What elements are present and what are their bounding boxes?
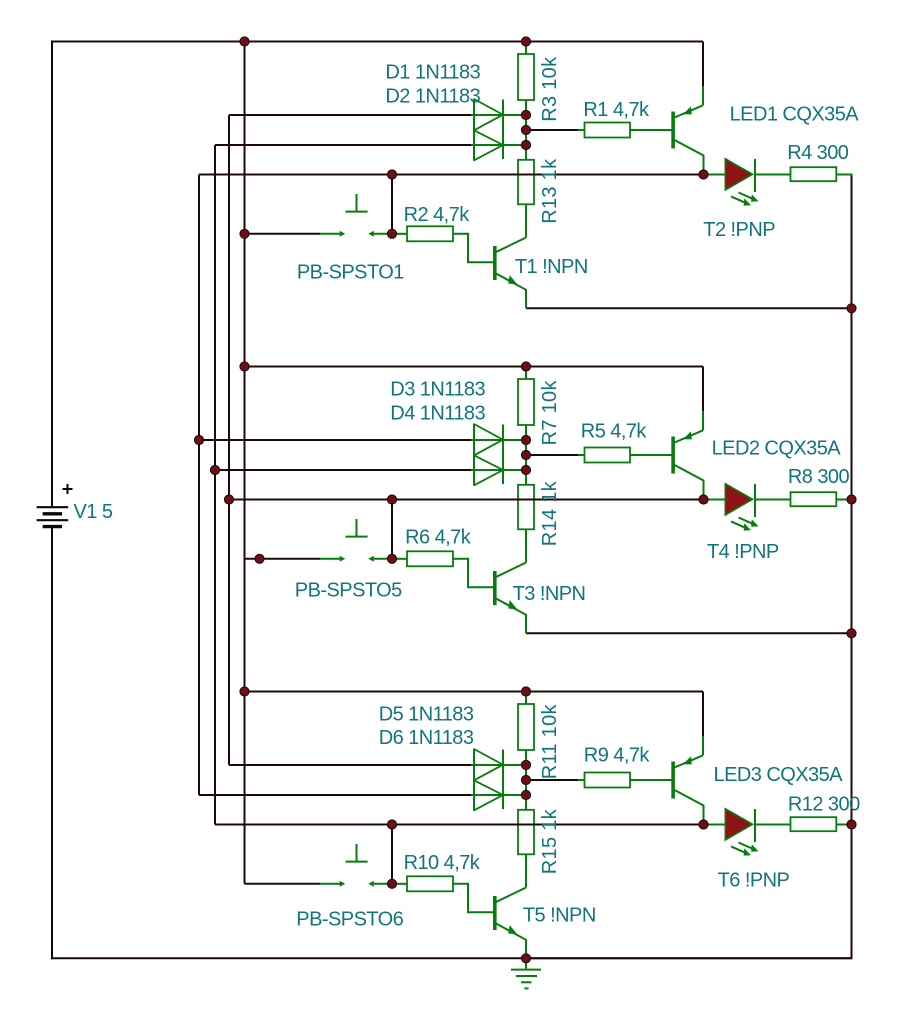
wire: left battery rail x=52 (lower) xyxy=(51,527,53,960)
wire: +V rail block 3 y=691.5 xyxy=(245,691,704,693)
LED LED3 anode stub xyxy=(704,824,726,826)
wire: diode junction column xyxy=(525,425,527,485)
svg-text:T5 !NPN: T5 !NPN xyxy=(523,905,596,927)
svg-text:LED3 CQX35A: LED3 CQX35A xyxy=(714,764,844,786)
ground bar 1 xyxy=(511,969,541,971)
node diode junction 2 xyxy=(521,790,530,799)
diode D6 1N1183 (bottom) xyxy=(474,780,503,810)
svg-text:T4 !PNP: T4 !PNP xyxy=(707,541,779,563)
ground bar 3 xyxy=(521,981,532,983)
switch PB-SPSTO1 plunger xyxy=(346,194,368,212)
svg-text:PB-SPSTO1: PB-SPSTO1 xyxy=(297,262,404,284)
svg-text:R15 1k: R15 1k xyxy=(539,808,561,874)
transistor T2 collector diagonal xyxy=(675,105,704,117)
resistor R2 body xyxy=(407,226,453,241)
svg-text:T3 !NPN: T3 !NPN xyxy=(513,583,586,605)
node bus x215 / diode in2 tap xyxy=(210,465,219,474)
LED LED2 triangle xyxy=(725,484,752,515)
wire: R4 to right rail xyxy=(836,174,852,176)
battery V1 plate short thick bottom xyxy=(43,525,62,528)
wire: diode input 1 (dark) xyxy=(229,114,471,116)
switch PB-SPSTO5 contact arrow left xyxy=(320,558,341,560)
node emitter return / right rail xyxy=(847,629,856,638)
wire: switch to R6 xyxy=(392,558,407,560)
node diode junction 1 xyxy=(521,435,530,444)
svg-text:R8 300: R8 300 xyxy=(788,466,850,488)
wire: switch riser x=392 (dark) xyxy=(391,175,393,234)
svg-text:D3 1N1183: D3 1N1183 xyxy=(390,379,485,401)
switch PB-SPSTO1 contact arrow left xyxy=(320,233,341,235)
LED LED3 triangle xyxy=(725,809,752,840)
resistor R6 body xyxy=(407,551,453,566)
wire: switch riser x=392 (dark) xyxy=(391,500,393,559)
resistor R3 vertical body xyxy=(518,54,534,100)
diode cathode bar (shared right) xyxy=(502,425,504,485)
wire: switch to R2 xyxy=(392,233,407,235)
wire: vertical bus x=229 (block1 diode in1 / block2 collector node / block3 diode in1) xyxy=(228,115,230,765)
wire: diode junction column xyxy=(525,750,527,810)
LED LED3 emission arrow 2 xyxy=(731,846,746,852)
wire: diode input 2 green pin xyxy=(471,144,526,146)
svg-text:T6 !PNP: T6 !PNP xyxy=(718,870,790,892)
transistor T3 base bar xyxy=(493,571,497,605)
wire: LED cathode to R12 xyxy=(755,824,791,826)
svg-text:R13 1k: R13 1k xyxy=(539,158,561,224)
svg-text:LED1 CQX35A: LED1 CQX35A xyxy=(730,103,860,125)
node diode junction 2 xyxy=(521,465,530,474)
diode anode bar (shared left) xyxy=(473,99,475,161)
wire: collector drop green pin xyxy=(702,736,704,755)
svg-text:R1 4,7k: R1 4,7k xyxy=(583,99,650,121)
wire: diode input 2 green pin xyxy=(471,469,526,471)
wire: collector drop from rail (dark) xyxy=(702,42,704,87)
wire: base node to R5 (dark) xyxy=(526,454,578,456)
LED LED1 emission arrow 1 xyxy=(739,193,754,199)
wire: R7 top pin xyxy=(525,367,527,380)
transistor T1 emitter arrow (NPN) xyxy=(506,275,520,288)
wire: emitter return (dark) xyxy=(526,957,852,959)
node diode junction 2 xyxy=(521,140,530,149)
svg-text:PB-SPSTO5: PB-SPSTO5 xyxy=(295,579,402,601)
resistor R7 vertical body xyxy=(518,379,534,425)
ground stub xyxy=(525,958,527,969)
svg-text:R3 10k: R3 10k xyxy=(539,56,561,122)
battery V1 plate long lower xyxy=(37,519,69,521)
switch PB-SPSTO6 plunger xyxy=(346,844,368,862)
wire: collector drop from rail (dark) xyxy=(702,367,704,412)
node collector node / switch riser xyxy=(387,170,396,179)
transistor T3 emitter diagonal xyxy=(496,599,526,634)
svg-text:T1 !NPN: T1 !NPN xyxy=(515,256,588,278)
wire: LED cathode to R8 xyxy=(755,499,791,501)
diode cathode bar (shared right) xyxy=(502,100,504,160)
resistor R9 body xyxy=(585,773,631,788)
node switch / R6 junction xyxy=(387,554,396,563)
svg-text:R2 4,7k: R2 4,7k xyxy=(404,204,471,226)
resistor R5 body xyxy=(585,448,631,463)
node diode junction 1 xyxy=(521,110,530,119)
node collector node / switch riser xyxy=(387,820,396,829)
transistor T2 emitter diagonal xyxy=(675,140,704,175)
wire: R15 bottom pin to NPN collector xyxy=(525,854,527,887)
LED LED3 emission arrow 1 xyxy=(739,843,754,849)
wire: +V rail block 2 y=366.5 xyxy=(245,366,704,368)
wire: switch to R10 xyxy=(392,883,407,885)
wire: left battery rail x=52 (upper) xyxy=(51,41,53,508)
transistor T5 emitter diagonal xyxy=(496,924,526,959)
LED LED1 anode stub xyxy=(704,174,726,176)
transistor T4 base bar xyxy=(671,437,675,474)
svg-text:R5 4,7k: R5 4,7k xyxy=(581,420,648,442)
LED LED1 triangle xyxy=(725,159,752,190)
LED LED1 emission arrow 2 xyxy=(731,196,746,202)
wire: diode input 1 (dark) xyxy=(229,764,471,766)
svg-text:D6 1N1183: D6 1N1183 xyxy=(379,727,474,749)
node switch / R2 junction xyxy=(387,229,396,238)
node switch / R10 junction xyxy=(387,879,396,888)
transistor T6 collector arrow (PNP, points to base bar) xyxy=(681,756,694,767)
svg-text:D1 1N1183: D1 1N1183 xyxy=(385,62,480,84)
LED LED2 cathode bar xyxy=(754,484,756,517)
node emitter return / right rail xyxy=(847,304,856,313)
node emitter-LED node xyxy=(699,495,708,504)
svg-text:R7 10k: R7 10k xyxy=(539,380,561,446)
svg-text:R12 300: R12 300 xyxy=(788,793,860,815)
svg-text:R14 1k: R14 1k xyxy=(539,480,561,546)
wire: R2 output to NPN base xyxy=(453,234,493,262)
transistor T6 collector diagonal xyxy=(675,755,704,767)
wire: base node to R9 (dark) xyxy=(526,779,578,781)
svg-text:D5 1N1183: D5 1N1183 xyxy=(379,704,474,726)
wire: R12 to right rail xyxy=(836,824,852,826)
resistor R15 vertical body xyxy=(518,810,534,855)
wire: diode junction column xyxy=(525,100,527,160)
transistor T3 emitter arrow (NPN) xyxy=(506,600,520,613)
node R12 / right rail xyxy=(847,820,856,829)
resistor R1 body xyxy=(585,123,631,138)
node +V rail / bus x244 (block 1) xyxy=(240,37,249,46)
wire: switch feed (dark) xyxy=(245,233,321,235)
node +V rail / R7 xyxy=(521,362,530,371)
transistor T6 emitter diagonal xyxy=(675,790,704,825)
diode D5 1N1183 (top) xyxy=(474,749,503,780)
svg-text:D4 1N1183: D4 1N1183 xyxy=(390,403,485,425)
resistor R11 vertical body xyxy=(518,704,534,750)
diode D2 1N1183 (bottom) xyxy=(474,130,503,160)
resistor R8 body xyxy=(791,492,837,506)
wire: collector drop green pin xyxy=(702,86,704,105)
svg-text:R9 4,7k: R9 4,7k xyxy=(584,745,651,767)
wire: collector drop green pin xyxy=(702,411,704,430)
switch PB-SPSTO5 contact arrow right xyxy=(373,558,393,560)
wire: R1 right pin to PNP base xyxy=(630,129,672,131)
wire: diode input 1 green pin xyxy=(471,114,526,116)
transistor T3 collector diagonal xyxy=(496,563,526,578)
wire: switch feed (dark) xyxy=(245,558,321,560)
wire: diode input 2 green pin xyxy=(471,794,526,796)
wire: bottom ground rail y=958.3 xyxy=(51,957,526,959)
svg-text:R6 4,7k: R6 4,7k xyxy=(405,526,472,548)
switch PB-SPSTO5 plunger xyxy=(346,519,368,537)
ground bar 2 xyxy=(516,975,537,977)
node collector node / switch riser xyxy=(387,495,396,504)
wire: vertical bus x=244.5 (+V distribution, rail to switch3) xyxy=(244,42,246,884)
wire: R9 right pin to PNP base xyxy=(630,779,672,781)
diode D4 1N1183 (bottom) xyxy=(474,455,503,485)
switch PB-SPSTO6 contact arrow left xyxy=(320,883,341,885)
wire: R11 top pin xyxy=(525,692,527,705)
wire: emitter return (dark) xyxy=(526,632,852,634)
wire: R3 top pin xyxy=(525,42,527,55)
resistor R10 body xyxy=(407,876,453,891)
battery V1 plate short thick xyxy=(43,512,62,515)
node R8 / right rail xyxy=(847,495,856,504)
diode anode bar (shared left) xyxy=(473,749,475,811)
LED LED2 emission arrow 2 xyxy=(731,521,746,527)
wire: right return rail x=851.5 xyxy=(526,175,853,959)
node switch feed tap xyxy=(255,554,264,563)
wire: R14 bottom pin to NPN collector xyxy=(525,529,527,562)
transistor T5 base bar xyxy=(493,896,497,930)
wire: R6 output to NPN base xyxy=(453,559,493,588)
transistor T6 base bar xyxy=(671,762,675,799)
resistor R14 vertical body xyxy=(518,485,534,530)
svg-text:R10 4,7k: R10 4,7k xyxy=(404,852,481,874)
svg-text:LED2 CQX35A: LED2 CQX35A xyxy=(712,437,842,459)
svg-text:V1 5: V1 5 xyxy=(74,501,113,523)
node diode junction base xyxy=(521,450,530,459)
node bus x229 / collector node tap xyxy=(224,495,233,504)
svg-text:R4 300: R4 300 xyxy=(787,142,849,164)
ground bar 4 xyxy=(524,987,528,989)
transistor T1 base bar xyxy=(493,246,497,280)
wire: collector long node (dark) xyxy=(229,499,704,501)
switch PB-SPSTO6 contact arrow right xyxy=(373,883,393,885)
transistor T2 collector arrow (PNP, points to base bar) xyxy=(681,106,694,117)
wire: R10 output to NPN base xyxy=(453,884,493,913)
wire: LED cathode to R4 xyxy=(755,174,791,176)
wire: diode input 1 green pin xyxy=(471,764,526,766)
battery plus sign xyxy=(63,484,73,494)
wire: +V top rail from battery, y=41.5 xyxy=(52,41,703,43)
battery V1 plate long top xyxy=(37,506,69,508)
diode cathode bar (shared right) xyxy=(502,750,504,810)
svg-text:D2 1N1183: D2 1N1183 xyxy=(385,85,480,107)
wire: switch feed (dark) xyxy=(245,883,321,885)
wire: diode input 2 (dark) xyxy=(199,794,471,796)
wire: diode input 1 (dark) xyxy=(199,439,471,441)
switch PB-SPSTO1 contact arrow right xyxy=(373,233,393,235)
transistor T4 emitter diagonal xyxy=(675,465,704,500)
wire: base node to R1 (dark) xyxy=(526,129,578,131)
svg-text:R11 10k: R11 10k xyxy=(539,703,561,779)
resistor R12 body xyxy=(791,817,837,831)
transistor T5 emitter arrow (NPN) xyxy=(506,925,520,938)
wire: R1 left pin xyxy=(578,129,585,131)
node +V rail / bus x244 (block 3) xyxy=(240,687,249,696)
node emitter-LED node xyxy=(699,820,708,829)
svg-text:T2 !PNP: T2 !PNP xyxy=(703,219,775,241)
wire: R13 bottom pin to NPN collector xyxy=(525,204,527,237)
wire: R5 left pin xyxy=(578,454,585,456)
wire: collector drop from rail (dark) xyxy=(702,692,704,737)
node diode junction 1 xyxy=(521,760,530,769)
svg-text:PB-SPSTO6: PB-SPSTO6 xyxy=(296,909,403,931)
wire: diode input 1 green pin xyxy=(471,439,526,441)
wire: collector long node (dark) xyxy=(215,824,704,826)
transistor T5 collector diagonal xyxy=(496,888,526,903)
LED LED2 anode stub xyxy=(704,499,726,501)
wire: R9 left pin xyxy=(578,779,585,781)
wire: emitter return (dark) xyxy=(526,307,852,309)
transistor T1 emitter diagonal xyxy=(496,274,526,309)
diode anode bar (shared left) xyxy=(473,424,475,486)
transistor T1 collector diagonal xyxy=(496,238,526,253)
resistor R4 body xyxy=(791,167,837,181)
wire: vertical bus x=199 (block1 collector node / block2 diode in1 / block3 diode in2) xyxy=(198,175,200,796)
wire: collector long node (dark) xyxy=(199,174,704,176)
transistor T4 collector arrow (PNP, points to base bar) xyxy=(681,431,694,442)
LED LED3 cathode bar xyxy=(754,809,756,842)
node +V rail / bus x244 (block 2) xyxy=(240,362,249,371)
wire: switch riser x=392 (dark) xyxy=(391,825,393,884)
transistor T4 collector diagonal xyxy=(675,430,704,442)
node diode junction base xyxy=(521,125,530,134)
diode D3 1N1183 (top) xyxy=(474,424,503,455)
wire: R5 right pin to PNP base xyxy=(630,454,672,456)
node emitter / ground node xyxy=(521,954,530,963)
LED LED2 emission arrow 1 xyxy=(739,518,754,524)
node diode junction base xyxy=(521,775,530,784)
wire: diode input 2 (dark) xyxy=(215,144,471,146)
wire: vertical bus x=215 (block1 diode in2 / block2 diode in2 / block3 collector node) xyxy=(214,145,216,825)
node bus x199 / diode in1 tap xyxy=(194,435,203,444)
node +V rail / R11 xyxy=(521,687,530,696)
wire: diode input 2 (dark) xyxy=(215,469,471,471)
node switch feed tap on +V bus xyxy=(240,229,249,238)
node +V rail / R3 xyxy=(521,37,530,46)
wire: R8 to right rail xyxy=(836,499,852,501)
resistor R13 vertical body xyxy=(518,160,534,205)
transistor T2 base bar xyxy=(671,112,675,149)
LED LED1 cathode bar xyxy=(754,159,756,192)
node emitter-LED node xyxy=(699,170,708,179)
diode D1 1N1183 (top) xyxy=(474,99,503,130)
